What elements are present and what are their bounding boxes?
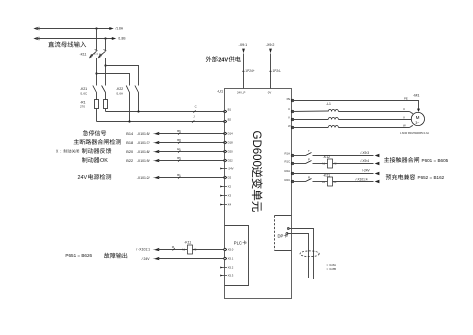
wire fault row2 /24V <box>142 257 234 261</box>
node junction K22a on DC- wire <box>128 120 130 122</box>
svg-text:X5.0: X5.0 <box>228 248 234 252</box>
svg-text:-X101:8/: -X101:8/ <box>137 150 150 154</box>
svg-text:1P24-: 1P24- <box>273 69 282 73</box>
breaker K11 pole 1 contact <box>89 50 98 59</box>
relay coil K21 <box>322 173 337 186</box>
svg-text:24V: 24V <box>78 175 88 181</box>
svg-text:B22: B22 <box>126 159 133 163</box>
svg-text:R1C: R1C <box>285 160 291 164</box>
wire branch pole2 to x138.5 <box>106 66 139 86</box>
wire PE to motor <box>292 97 421 112</box>
svg-text:B2: B2 <box>228 117 232 121</box>
wire DP bus line 2 <box>286 233 309 279</box>
label brake OK 制动器OK <box>82 157 100 162</box>
svg-text:-X9:2: -X9:2 <box>266 43 275 47</box>
label GD600 inverter unit title (rotated 90deg) <box>250 131 263 212</box>
pin stub X4 on block left edge <box>220 203 231 207</box>
svg-text:-K11: -K11 <box>80 53 87 57</box>
wire relay row1 with K12 aux contact <box>292 149 382 157</box>
contactor K22 contact b <box>135 86 139 112</box>
wire -X9:1 to block 24V_P <box>242 54 255 89</box>
wire DC bus - right arrow to sheet ref /1.8B <box>112 37 126 41</box>
svg-text:J: J <box>193 115 195 119</box>
wire relay row2 <box>292 157 382 165</box>
svg-text:V: V <box>288 116 290 120</box>
svg-text:X5.3: X5.3 <box>228 274 234 278</box>
svg-text:X3: X3 <box>228 194 232 198</box>
svg-text:/-X9:4: /-X9:4 <box>361 159 370 163</box>
label fault output 故障输出 <box>104 253 127 259</box>
svg-text:M: M <box>416 115 420 120</box>
svg-text:D2: D2 <box>228 176 232 180</box>
svg-text:270: 270 <box>80 105 85 109</box>
wire DC bus + right arrow to sheet ref /1.8A <box>109 26 124 30</box>
svg-text:-X101:9/: -X101:9/ <box>137 159 150 163</box>
wire DC+ into block pin <box>106 111 228 113</box>
label external 24V supply 外部24V供电 <box>206 56 218 62</box>
svg-text:P601 = B605: P601 = B605 <box>422 158 449 163</box>
label emergency stop 急停信号 <box>83 130 106 136</box>
label main contactor close 主接触器合闸 P601 = B605 <box>384 157 419 163</box>
wire DC- into block pin <box>97 121 228 123</box>
DP card sub-block <box>275 216 292 251</box>
wire vertical drop pole 2 <box>105 39 107 51</box>
svg-text:DP: DP <box>278 233 284 238</box>
svg-text:W: W <box>288 124 291 128</box>
svg-text:3~: 3~ <box>415 121 419 125</box>
wire R2 bottom down <box>105 109 107 112</box>
svg-text:V: V <box>403 115 405 119</box>
svg-text:1.6KW 380V/690RPM 4.3A: 1.6KW 380V/690RPM 4.3A <box>400 132 429 135</box>
svg-text:X2: X2 <box>228 185 232 189</box>
wire signal row -X101:5/ into block pin D14 <box>126 129 233 136</box>
wire pole2 below K11 <box>105 58 107 86</box>
wire -X9:2 to block 0V <box>269 54 281 89</box>
node junction K22b on DC+ wire <box>137 110 139 112</box>
svg-text:/1.8A: /1.8A <box>116 26 124 30</box>
svg-text:R2A: R2A <box>285 169 291 173</box>
svg-text:-X101:2/: -X101:2/ <box>137 176 150 180</box>
pin stub X5.2 on PLC edge <box>220 266 234 270</box>
net label on DC+ wire <box>193 105 196 113</box>
svg-text:/-24V: /-24V <box>362 169 370 173</box>
svg-text:/1.6A: /1.6A <box>116 92 123 96</box>
svg-text:R1A: R1A <box>285 151 291 155</box>
wire pole1 below K11 <box>96 58 98 86</box>
svg-text:R: R <box>308 176 310 180</box>
svg-text:B8: B8 <box>177 138 181 142</box>
pin R2C on block right edge <box>285 178 294 183</box>
label main breaker closed detect 主断路器合闸检测 <box>74 139 121 145</box>
svg-text:B5: B5 <box>177 156 181 160</box>
pin U on block right edge <box>288 107 294 113</box>
label brake feedback 制动器反馈 <box>82 148 112 154</box>
PLC card sub-block <box>225 226 249 286</box>
wire signal row -X101:9/ into block pin D22 <box>126 156 233 163</box>
relay coil K11 (fault) <box>182 241 197 255</box>
terminal -X9:2 <box>266 43 275 53</box>
wire fault row1 with relay coil K11 <box>136 245 233 252</box>
svg-text:-K21: -K21 <box>80 87 87 91</box>
svg-text:P652 = B162: P652 = B162 <box>418 175 445 180</box>
svg-text:-K12: -K12 <box>323 155 330 159</box>
pin stub X3 on block left edge <box>220 194 231 198</box>
svg-text:B1: B1 <box>228 107 232 111</box>
svg-text:P: P <box>308 157 310 161</box>
svg-text:24V_P: 24V_P <box>237 91 246 95</box>
svg-text:PE: PE <box>287 97 291 101</box>
svg-text:X5.1: X5.1 <box>228 257 234 261</box>
breaker K11 mechanical link <box>94 53 103 55</box>
svg-text:0V: 0V <box>268 91 272 95</box>
wire branch pole1 to x129.5 <box>97 74 130 86</box>
svg-text:/1.8B: /1.8B <box>118 37 125 41</box>
svg-text:-X101:5/: -X101:5/ <box>137 132 150 136</box>
svg-text:W: W <box>403 124 406 128</box>
svg-text:C: C <box>195 105 197 109</box>
pin R1A on block right edge <box>285 151 294 156</box>
svg-text:PLC: PLC <box>234 240 242 245</box>
svg-text:D14: D14 <box>228 132 234 136</box>
pin R2A on block right edge <box>285 169 294 175</box>
pin stub X5.3 on PLC edge <box>220 274 234 278</box>
inverter unit U1 block outline <box>225 89 292 299</box>
node junction bus- tap <box>104 37 106 39</box>
svg-text:X4: X4 <box>228 203 232 207</box>
svg-text:B18: B18 <box>126 141 133 145</box>
svg-text:P651 = B626: P651 = B626 <box>65 253 92 258</box>
node junction pole1 to K22b <box>95 72 97 74</box>
svg-text:D20: D20 <box>228 150 234 154</box>
svg-text:-X9:1: -X9:1 <box>239 43 248 47</box>
wire vertical drop pole 1 <box>96 29 98 51</box>
svg-text:-L1: -L1 <box>326 102 331 106</box>
label DC bus input 直流母线输入 <box>48 41 86 47</box>
svg-text:/-X9:3: /-X9:3 <box>361 151 370 155</box>
svg-text:-X101:7/: -X101:7/ <box>137 141 150 145</box>
resistor R2 body <box>104 100 108 109</box>
svg-text:OK: OK <box>100 158 108 164</box>
svg-text:-M1: -M1 <box>413 94 420 98</box>
svg-text:-U1: -U1 <box>217 90 223 94</box>
pin DC- on block left edge <box>224 117 232 122</box>
node DC bus + terminal <box>33 27 112 31</box>
svg-text:U: U <box>403 107 405 111</box>
wire relay row3 <box>292 169 382 176</box>
svg-text:E1: E1 <box>177 147 181 151</box>
motor M1 <box>411 94 424 126</box>
svg-text:B14: B14 <box>126 132 133 136</box>
resistor R1 body <box>95 100 99 109</box>
breaker K11 pole 2 contact <box>98 50 107 59</box>
svg-text:T: T <box>308 149 310 153</box>
svg-text:/1.6C: /1.6C <box>80 92 88 96</box>
svg-text:B6: B6 <box>177 129 181 133</box>
connector ellipse (DP cable) <box>300 251 319 257</box>
terminal -X9:1 <box>239 43 248 53</box>
wire signal row -X101:2/ into block pin D2 <box>137 173 232 180</box>
svg-text:-K22: -K22 <box>116 87 123 91</box>
pin R1C on block right edge <box>285 160 294 165</box>
pin PE on block right edge <box>287 97 294 102</box>
label precharge bypass 预充电兼容 P652 = B162 <box>386 174 416 180</box>
svg-text:U: U <box>288 107 290 111</box>
node junction bus+ tap <box>95 27 97 29</box>
svg-text:≈ /4.8B: ≈ /4.8B <box>327 267 337 271</box>
svg-text:PE: PE <box>404 97 408 101</box>
svg-text:-K11: -K11 <box>184 241 191 245</box>
contactor K21 contact a <box>93 86 97 100</box>
contactor K22 contact a <box>126 86 129 122</box>
svg-text:1P24+: 1P24+ <box>245 69 254 73</box>
node DC bus - terminal <box>33 37 114 41</box>
net label on DC- wire <box>192 115 195 123</box>
wire W phase with L1 coil <box>292 124 413 128</box>
wire relay row4 <box>292 176 382 184</box>
wire signal row -X101:7/ into block pin D18 <box>126 138 233 145</box>
svg-text:D18: D18 <box>228 141 234 145</box>
svg-text:X5.2: X5.2 <box>228 266 234 270</box>
pin stub -24V on block left edge <box>220 167 233 171</box>
relay coil K12 <box>322 155 337 168</box>
wire R1 bottom down <box>96 109 98 122</box>
svg-text:B1: B1 <box>177 173 181 177</box>
svg-text:-24V: -24V <box>228 167 234 171</box>
pin V on block right edge <box>288 116 294 121</box>
svg-text:R2C: R2C <box>285 178 291 182</box>
svg-text:/-X101:4: /-X101:4 <box>356 178 368 182</box>
svg-text:/ 24V: / 24V <box>142 257 151 261</box>
svg-text:/ -X101:1: / -X101:1 <box>136 248 150 252</box>
label brake-close note X : 制动关闭 <box>56 149 79 153</box>
svg-text:B20: B20 <box>126 150 133 154</box>
svg-text:24V: 24V <box>218 58 228 64</box>
wire U phase with L1 coil <box>292 107 413 114</box>
pin stub X2 on block left edge <box>220 185 231 189</box>
contactor K21 contact b <box>102 86 106 100</box>
wire DP bus line 1 <box>287 228 313 280</box>
wire signal row -X101:8/ into block pin D20 <box>126 147 233 154</box>
svg-text:GD600: GD600 <box>250 131 262 167</box>
node junction pole2 to K22a <box>104 64 106 66</box>
pin W on block right edge <box>288 124 294 129</box>
wire V phase with L1 coil <box>292 115 412 119</box>
svg-text:D22: D22 <box>228 159 234 163</box>
pin DC+ on block left edge <box>224 107 232 112</box>
